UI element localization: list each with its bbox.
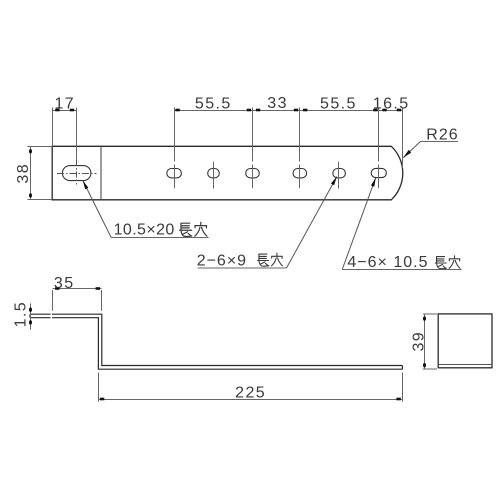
svg-text:39: 39 [410, 331, 427, 352]
svg-text:1.5: 1.5 [12, 301, 29, 327]
svg-text:55.5: 55.5 [195, 95, 232, 112]
svg-text:2−6×9: 2−6×9 [197, 252, 247, 269]
svg-text:55.5: 55.5 [320, 95, 357, 112]
svg-text:33: 33 [267, 95, 288, 112]
svg-text:17: 17 [54, 95, 75, 112]
svg-text:16.5: 16.5 [373, 95, 410, 112]
svg-text:225: 225 [235, 385, 266, 402]
svg-text:38: 38 [15, 163, 32, 184]
svg-text:35: 35 [54, 275, 75, 292]
svg-text:4−6× 10.5: 4−6× 10.5 [347, 254, 428, 271]
svg-text:10.5×20: 10.5×20 [114, 222, 175, 239]
